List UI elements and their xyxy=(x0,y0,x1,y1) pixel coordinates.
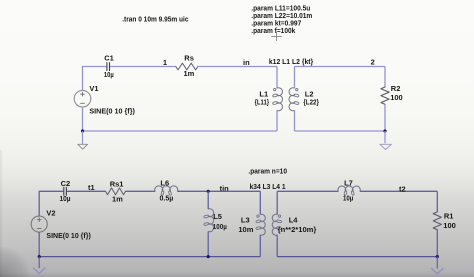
junction dot at L5 bottom xyxy=(207,255,210,258)
wire L4 bottom xyxy=(276,235,278,257)
wire L3 bottom xyxy=(259,235,261,257)
svg-text:k34 L3 L4 1: k34 L3 L4 1 xyxy=(250,182,286,191)
svg-text:R1: R1 xyxy=(444,212,454,221)
wire top rail V1 to C1 xyxy=(82,66,106,68)
wire L1 bottom xyxy=(276,111,278,132)
bottom-left corner shadow xyxy=(0,247,30,277)
svg-text:2: 2 xyxy=(371,58,375,67)
wire Rs1 to L6 xyxy=(126,190,156,192)
wire Rs to L1 xyxy=(198,66,277,68)
wire R1 bottom xyxy=(436,230,438,257)
svg-text:Rs: Rs xyxy=(184,54,194,63)
mouse crosshair cursor xyxy=(276,32,278,41)
svg-text:V1: V1 xyxy=(89,84,98,93)
svg-text:{L22}: {L22} xyxy=(303,98,319,107)
ground below V1 xyxy=(82,131,84,144)
svg-text:L6: L6 xyxy=(160,179,169,188)
svg-text:.tran 0 10m 9.95m uic: .tran 0 10m 9.95m uic xyxy=(122,15,188,24)
svg-text:1m: 1m xyxy=(112,195,123,204)
svg-text:{n**2*10m}: {n**2*10m} xyxy=(278,225,317,234)
svg-text:k12 L1 L2 {kt}: k12 L1 L2 {kt} xyxy=(269,57,313,66)
svg-text:0.5µ: 0.5µ xyxy=(160,194,174,203)
wire L2 bottom xyxy=(294,111,296,132)
wire L5 bottom xyxy=(207,232,209,257)
bottom edge darkening xyxy=(0,272,474,277)
ground below R2 xyxy=(384,131,386,143)
svg-text:100: 100 xyxy=(443,221,456,230)
left edge darkening xyxy=(0,150,3,277)
wire L6 to tin junction xyxy=(178,190,209,192)
svg-text:in: in xyxy=(243,58,250,67)
wire L1 top xyxy=(276,67,278,89)
wire bottom rail right loop 2 xyxy=(277,256,437,258)
voltage source V2 xyxy=(31,216,47,232)
svg-text:100: 100 xyxy=(390,93,403,102)
inductor L5 xyxy=(208,209,213,232)
wire top rail V2 to C2 xyxy=(39,190,64,192)
junction dot at tin xyxy=(207,190,210,193)
svg-text:L5: L5 xyxy=(213,212,222,221)
wire V2 bottom to rail xyxy=(38,232,40,257)
wire bottom rail right loop xyxy=(295,130,386,132)
capacitor C2 xyxy=(63,187,65,196)
wire C2 to Rs1 xyxy=(67,190,106,192)
svg-text:R2: R2 xyxy=(391,84,401,93)
wire L5 top xyxy=(207,191,209,209)
svg-text:L7: L7 xyxy=(344,178,353,187)
svg-text:1: 1 xyxy=(163,58,167,67)
junction dot at V2 ground xyxy=(38,255,41,258)
capacitor C1 xyxy=(106,62,108,71)
wire L7 to R1 corner xyxy=(360,190,437,192)
svg-text:SINE(0 10 {f}): SINE(0 10 {f}) xyxy=(46,231,91,240)
wire L2 top xyxy=(294,67,296,89)
inductor L3 xyxy=(260,214,265,235)
svg-text:t2: t2 xyxy=(399,184,406,193)
svg-text:V2: V2 xyxy=(46,209,55,218)
svg-text:100µ: 100µ xyxy=(213,222,227,231)
svg-text:Rs1: Rs1 xyxy=(110,180,124,189)
inductor L6 xyxy=(155,186,178,191)
svg-text:.param n=10: .param n=10 xyxy=(248,166,287,175)
wire top rail L2 to R2 xyxy=(295,66,386,68)
wire C1 to Rs xyxy=(110,66,176,68)
svg-text:C1: C1 xyxy=(104,54,114,63)
resistor Rs xyxy=(176,63,198,70)
svg-text:1m: 1m xyxy=(184,69,195,78)
inductor L1 xyxy=(277,88,282,111)
wire L3 top xyxy=(259,191,261,214)
svg-text:L3: L3 xyxy=(241,216,250,225)
wire V1 bottom to rail xyxy=(82,107,84,131)
wire top rail L4 to L7 xyxy=(277,190,338,192)
wire bottom rail left loop 2 xyxy=(39,256,260,258)
wire down to R2 xyxy=(384,67,386,88)
svg-text:10m: 10m xyxy=(238,225,253,234)
wire down to R1 xyxy=(436,191,438,212)
resistor R2 xyxy=(381,87,389,104)
wire V1 top to rail xyxy=(82,67,84,91)
wire R2 bottom xyxy=(384,104,386,131)
inductor L7 xyxy=(338,186,360,191)
svg-text:t1: t1 xyxy=(88,183,95,192)
svg-text:{L11}: {L11} xyxy=(255,98,270,107)
svg-text:C2: C2 xyxy=(61,179,71,188)
wire bottom rail left loop xyxy=(83,130,278,132)
resistor Rs1 xyxy=(106,188,126,195)
resistor R1 xyxy=(433,212,441,230)
wire V2 top to rail xyxy=(38,191,40,216)
svg-text:10µ: 10µ xyxy=(343,194,353,203)
ground below R1 xyxy=(436,257,438,269)
junction dot at V1 ground xyxy=(81,129,84,132)
wire L4 top xyxy=(276,191,278,214)
junction dot at R1 ground xyxy=(436,255,439,258)
ground below V2 xyxy=(38,257,40,268)
svg-text:SINE(0 10 {f}): SINE(0 10 {f}) xyxy=(89,106,135,115)
wire tin to L3 xyxy=(208,190,260,192)
svg-text:.param f=100k: .param f=100k xyxy=(251,26,296,35)
junction dot at R2 ground xyxy=(383,129,386,132)
inductor L2 xyxy=(289,88,294,111)
svg-text:10µ: 10µ xyxy=(104,70,114,79)
svg-text:10µ: 10µ xyxy=(60,194,71,203)
inductor L4 xyxy=(272,214,277,235)
svg-text:L4: L4 xyxy=(289,216,299,225)
voltage source V1 xyxy=(74,90,91,107)
